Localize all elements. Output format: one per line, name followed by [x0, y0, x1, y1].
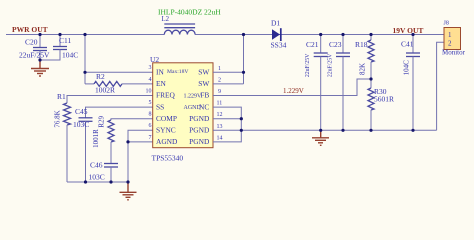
svg-text:8: 8 — [149, 112, 152, 118]
junction: C23 tap on output rail — [341, 33, 344, 36]
svg-text:1: 1 — [448, 31, 452, 39]
junction: SYNC/AGND node — [126, 140, 129, 143]
svg-text:R18: R18 — [355, 40, 368, 49]
diode D1 SS34 — [271, 19, 287, 50]
wire: left bottom ground rail — [67, 181, 128, 183]
capacitor C45 103C on SS pin — [73, 107, 153, 182]
svg-text:C11: C11 — [59, 36, 71, 45]
svg-text:14: 14 — [217, 135, 223, 141]
junction: PGND pin 12 on bus — [240, 117, 243, 120]
svg-text:5601R: 5601R — [374, 95, 394, 104]
junction: C20/C11 ground node — [38, 58, 41, 61]
capacitor C46 103C in series with R29 — [89, 161, 119, 183]
junction: C45 on left ground rail — [84, 180, 87, 183]
capacitor C21 22uF/25V — [305, 35, 328, 131]
connector J8 Monitor — [442, 21, 466, 57]
junction: C21 on ground rail — [319, 129, 322, 132]
svg-text:Monitor: Monitor — [442, 49, 466, 57]
svg-text:12: 12 — [217, 112, 223, 118]
IC U2 right pin numbers 1,2,9,11,12,13,14 — [217, 66, 223, 142]
svg-text:R2: R2 — [96, 72, 105, 81]
svg-text:FB: FB — [200, 91, 209, 100]
svg-text:103C: 103C — [73, 120, 89, 129]
junction: AGND on left ground rail — [126, 180, 129, 183]
svg-text:C41: C41 — [401, 40, 414, 49]
svg-text:104C: 104C — [403, 60, 411, 76]
wire: U2 pin 6 SYNC down to AGND — [128, 130, 153, 142]
svg-text:1.229V: 1.229V — [184, 93, 203, 99]
svg-text:J8: J8 — [444, 21, 449, 27]
wire: VIN branch from top rail down to EN pull-up R2 — [84, 35, 86, 84]
svg-text:1.229V: 1.229V — [283, 87, 304, 95]
junction: FB divider tap R18/R30 — [369, 77, 372, 80]
junction: C20 tap on top rail — [38, 33, 41, 36]
capacitor C11 104C — [40, 35, 78, 61]
wire: bottom right ground rail — [241, 129, 436, 131]
svg-text:SW: SW — [198, 68, 209, 77]
resistor R2 1002R — [85, 72, 153, 95]
svg-text:11: 11 — [217, 101, 223, 107]
svg-text:6: 6 — [149, 123, 152, 129]
svg-text:U2: U2 — [150, 55, 159, 64]
svg-text:19V OUT: 19V OUT — [393, 26, 424, 35]
svg-text:76.8K: 76.8K — [54, 110, 62, 127]
wire: U2 pin 7 AGND to analog ground — [128, 142, 153, 182]
inductor L2 IHLP-4040DZ 22uH — [158, 8, 221, 35]
IC U2 TPS55340 body — [150, 55, 213, 163]
svg-text:EN: EN — [156, 79, 167, 88]
svg-text:C23: C23 — [329, 40, 342, 49]
svg-text:1001R: 1001R — [92, 129, 100, 148]
svg-text:Max:18V: Max:18V — [167, 69, 188, 75]
svg-text:COMP: COMP — [156, 114, 177, 123]
svg-text:R29: R29 — [98, 115, 106, 127]
resistor R30 5601R lower divider — [368, 79, 394, 130]
capacitor C20 22uF/25V — [19, 35, 50, 61]
resistor R29 1001R on COMP pin — [92, 115, 153, 163]
svg-text:9: 9 — [218, 89, 221, 95]
svg-text:PGND: PGND — [189, 126, 210, 135]
svg-text:2: 2 — [218, 77, 221, 83]
junction: C41 on ground rail — [411, 129, 414, 132]
capacitor C23 22uF/25V — [328, 35, 351, 131]
svg-text:5: 5 — [149, 100, 152, 106]
junction: IN pin branch — [83, 71, 86, 74]
svg-text:D1: D1 — [271, 19, 280, 28]
svg-text:IHLP-4040DZ 22uH: IHLP-4040DZ 22uH — [158, 8, 221, 17]
wire: riser to J8 pin 2 — [437, 42, 444, 130]
IC U2 left pin numbers 3,4,10,5,8,6,7 — [146, 65, 152, 141]
svg-text:SYNC: SYNC — [156, 126, 176, 135]
svg-text:AGND: AGND — [156, 137, 178, 146]
capacitor C41 104C — [401, 35, 420, 131]
svg-text:4: 4 — [149, 77, 152, 83]
svg-text:1002R: 1002R — [95, 86, 115, 95]
wire: U2 pin 3 IN — [85, 71, 153, 73]
svg-text:SS34: SS34 — [271, 41, 287, 50]
ground symbol left bottom — [120, 182, 137, 200]
svg-text:1: 1 — [218, 66, 221, 72]
wire: SW pins 1,2 up to switch node on top rail — [213, 35, 244, 84]
junction: VIN branch on top rail — [83, 33, 86, 36]
svg-text:FREQ: FREQ — [156, 91, 176, 100]
svg-text:PGND: PGND — [189, 114, 210, 123]
svg-text:AGND: AGND — [184, 105, 202, 111]
svg-text:10: 10 — [146, 88, 152, 94]
svg-text:TPS55340: TPS55340 — [152, 154, 184, 163]
svg-text:3: 3 — [149, 65, 152, 71]
svg-text:13: 13 — [217, 124, 223, 130]
svg-text:PWR OUT: PWR OUT — [12, 25, 48, 34]
junction: C41 tap on output rail — [411, 33, 414, 36]
svg-text:SS: SS — [156, 102, 164, 111]
junction: C21 tap on output rail — [319, 33, 322, 36]
junction: C11 tap on top rail — [58, 33, 61, 36]
svg-text:C45: C45 — [75, 107, 88, 116]
svg-text:C21: C21 — [306, 40, 319, 49]
junction: C23 on ground rail — [341, 129, 344, 132]
IC U2 pin names — [156, 68, 210, 147]
ground symbol under C20/C11 — [31, 60, 49, 76]
svg-text:22uF/25V: 22uF/25V — [19, 51, 50, 60]
svg-text:R1: R1 — [57, 92, 66, 101]
junction: R18 tap on output rail — [369, 33, 372, 36]
svg-text:PGND: PGND — [189, 137, 210, 146]
svg-text:L2: L2 — [162, 16, 170, 23]
svg-text:7: 7 — [149, 135, 152, 141]
junction: switch node on top rail — [242, 33, 245, 36]
svg-text:22uF/25V: 22uF/25V — [328, 53, 334, 77]
resistor R18 82K upper divider — [355, 35, 374, 80]
wire: NC pin 11 and PGND pins 12,13,14 bus — [213, 107, 241, 142]
svg-text:104C: 104C — [62, 51, 78, 60]
wire: FB pin 9 to R18/R30 divider tap — [213, 79, 371, 96]
svg-text:C20: C20 — [25, 38, 38, 47]
svg-text:IN: IN — [156, 68, 164, 77]
junction: SW pin 1 on riser — [242, 71, 245, 74]
svg-text:82K: 82K — [359, 63, 367, 75]
svg-text:C46: C46 — [90, 161, 103, 170]
resistor R1 76.8K on FREQ pin — [54, 92, 153, 182]
svg-text:SW: SW — [198, 79, 209, 88]
wire: top power rail from PWR OUT through L2 and D1 to J8 pin 1 — [6, 34, 444, 36]
svg-text:22uF/25V: 22uF/25V — [305, 53, 311, 77]
junction: PGND pin 13 / ground rail — [240, 129, 243, 132]
junction: R30 on ground rail — [369, 129, 372, 132]
svg-text:2: 2 — [448, 39, 452, 47]
net label Max:18V on IN pin — [167, 69, 202, 111]
junction: C46 on left ground rail — [109, 180, 112, 183]
svg-text:103C: 103C — [89, 173, 105, 182]
ground symbol right (under C21) — [312, 130, 329, 145]
